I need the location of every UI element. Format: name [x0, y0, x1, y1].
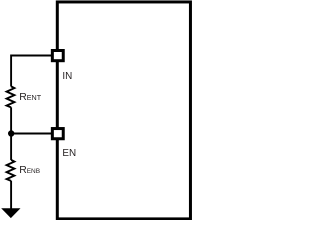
IC body U1 — [57, 2, 190, 219]
svg-text:IN: IN — [62, 71, 72, 82]
wire RENT bottom to junction — [10, 107, 12, 133]
wire junction to EN pin — [11, 133, 51, 135]
wire RENB bottom to ground — [10, 181, 12, 209]
node junction dot — [8, 130, 14, 136]
pin EN terminal square — [52, 129, 63, 139]
ground — [1, 208, 20, 218]
resistor RENB — [7, 160, 15, 181]
svg-text:EN: EN — [62, 148, 76, 159]
pin IN terminal square — [52, 51, 63, 61]
svg-text:RENB: RENB — [19, 165, 40, 176]
resistor RENT — [7, 86, 15, 107]
wire junction to RENB top — [10, 134, 12, 161]
wire IN pin to divider top corner — [11, 56, 51, 87]
svg-text:RENT: RENT — [19, 92, 42, 103]
